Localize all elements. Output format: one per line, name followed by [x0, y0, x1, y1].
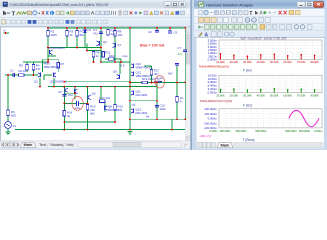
svg-text:1k: 1k — [157, 78, 161, 82]
resistor R1 — [19, 74, 24, 77]
analysis window icon — [199, 2, 204, 7]
chart 3 : transient sine wave — [200, 107, 324, 142]
svg-text:4k2: 4k2 — [90, 112, 95, 116]
svg-text:THD(HARM(V(OUT)))(%): THD(HARM(V(OUT)))(%) — [200, 99, 233, 103]
svg-text:0.000m: 0.000m — [208, 117, 218, 121]
wire node A horizontal — [48, 47, 67, 49]
svg-text:50.00K: 50.00K — [270, 60, 279, 64]
capacitor C2 — [155, 31, 159, 33]
resistor R7 — [76, 31, 79, 36]
svg-text:Models: Models — [51, 142, 64, 147]
current source inside circle — [76, 101, 78, 106]
wire horizontal y62 extension — [101, 61, 130, 63]
svg-text:THD(HARM(V(RL)))(%): THD(HARM(V(RL)))(%) — [199, 64, 229, 68]
resistor R4 — [32, 65, 35, 70]
svg-text:10.00K: 10.00K — [216, 93, 225, 97]
wire vertical R5 branch — [26, 62, 28, 72]
svg-text:40.00K: 40.00K — [257, 93, 266, 97]
wire vertical load branch — [176, 102, 178, 119]
resistor R7b — [57, 63, 60, 68]
wire vcc stub — [4, 32, 10, 34]
svg-text:22a: 22a — [75, 106, 80, 110]
svg-text:Q3: Q3 — [103, 40, 107, 44]
wire horizontal y81.8 — [64, 81, 130, 83]
resistor R17 — [150, 70, 153, 75]
svg-text:47u: 47u — [93, 32, 98, 36]
resistor R14 — [63, 111, 66, 116]
resistor R9 — [92, 52, 95, 57]
svg-text:100.000u: 100.000u — [219, 129, 231, 133]
wire vertical R4 branch — [33, 62, 35, 75]
junction dots cluster — [86, 50, 88, 52]
svg-text:8k2: 8k2 — [80, 33, 85, 37]
toolbar background — [0, 9, 191, 28]
wire mid feed — [23, 61, 48, 63]
resistor R11 — [102, 52, 105, 57]
wire lower row — [64, 121, 115, 123]
wire stub x170 top rail drop — [169, 28, 171, 31]
svg-text:300.000u: 300.000u — [235, 129, 247, 133]
svg-text:20.00K: 20.00K — [230, 60, 239, 64]
svg-text:Main: Main — [221, 143, 230, 148]
svg-text:200.000m: 200.000m — [205, 112, 218, 116]
transistor Q2 — [54, 73, 57, 78]
junction dot vcc — [5, 32, 7, 34]
resistor R2 — [47, 31, 50, 36]
source V2 — [175, 64, 179, 66]
resistor R12b — [109, 58, 114, 61]
wire horizontal y66 stub — [144, 65, 152, 67]
svg-text:C7: C7 — [178, 46, 182, 50]
svg-text:V1: V1 — [13, 124, 17, 128]
right title bar — [194, 0, 327, 9]
svg-text:100: 100 — [118, 33, 123, 37]
svg-text:In: In — [4, 29, 7, 33]
svg-text:30.00K: 30.00K — [243, 93, 252, 97]
wire collector row y59.7 — [43, 59, 59, 61]
svg-text:10k: 10k — [118, 108, 123, 112]
ground bottom mid — [128, 132, 133, 135]
wire bottom ground rail — [15, 129, 185, 131]
wire vertical x115 — [114, 87, 116, 122]
wire stub y93.3 — [64, 92, 75, 94]
svg-text:50.00K: 50.00K — [270, 93, 279, 97]
transistor Q7 — [113, 43, 116, 48]
app icon — [3, 2, 8, 7]
wire long mid rail — [48, 86, 157, 88]
svg-text:D1: D1 — [88, 28, 92, 32]
svg-text:1.000m: 1.000m — [314, 129, 324, 133]
svg-text:R7: R7 — [61, 62, 65, 66]
wire vertical x121 — [120, 59, 122, 62]
right bottom tab strip — [197, 142, 325, 149]
svg-text:T (Secs): T (Secs) — [243, 138, 255, 142]
svg-text:R1 1k: R1 1k — [19, 69, 27, 73]
wire top supply rail — [48, 27, 185, 29]
svg-text:Q6: Q6 — [113, 70, 117, 74]
wire output stage top — [130, 82, 185, 84]
wire between Q1 Q2 bases — [44, 74, 52, 76]
transistor Q12 — [131, 72, 134, 77]
junction dots extra — [76, 27, 78, 29]
schematic white canvas — [1, 27, 187, 141]
resistor R3 — [66, 31, 69, 36]
transistor Q9 — [88, 95, 91, 100]
wire vertical x42.5 — [42, 60, 44, 72]
junction dots — [47, 27, 49, 29]
svg-text:F (Hz): F (Hz) — [243, 69, 252, 73]
wire vertical x87 — [87, 87, 89, 130]
transistor Q3 — [97, 41, 100, 46]
transistor Q6 — [117, 74, 120, 79]
wire vertical x44 tail — [43, 75, 45, 80]
svg-text:500.000u: 500.000u — [255, 129, 267, 133]
svg-text:30.00K: 30.00K — [243, 60, 252, 64]
capacitor C6 — [168, 31, 172, 33]
svg-text:600: 600 — [11, 113, 16, 117]
resistor R6 — [7, 110, 10, 115]
chart 2 : THD harmonic spikes (green) — [200, 74, 323, 108]
chart 1 : THD harmonic spikes (red) — [199, 37, 323, 73]
wire feedback row — [130, 118, 185, 120]
window buttons — [297, 2, 323, 8]
wire vertical right edge — [184, 28, 186, 50]
capacitor C7 — [183, 50, 187, 52]
svg-text:MJL4281: MJL4281 — [136, 93, 148, 97]
transistor Q5b — [75, 89, 78, 94]
inductor L1 — [155, 81, 162, 82]
svg-text:4k99: 4k99 — [51, 33, 58, 37]
wire vertical R17 branch — [151, 66, 153, 83]
svg-text:C2: C2 — [148, 30, 152, 34]
wire through 22a ellipse — [64, 102, 76, 104]
svg-text:Main: Main — [24, 142, 33, 147]
svg-text:C9: C9 — [132, 103, 136, 107]
wire vertical V1 branch — [7, 75, 9, 110]
svg-text:Text: Text — [39, 142, 47, 147]
svg-text:Cex: Cex — [123, 54, 129, 58]
svg-text:40.00K: 40.00K — [257, 60, 266, 64]
svg-text:C:\MC10\DATA\MultiSim\Self-Api: C:\MC10\DATA\MultiSim\Self-ApicalBJT\Sel… — [10, 3, 109, 7]
wire horizontal Q3 row — [85, 47, 101, 49]
svg-text:R12: R12 — [109, 54, 115, 58]
svg-text:800.000u: 800.000u — [285, 129, 297, 133]
bottom tab strip — [0, 141, 191, 149]
svg-text:-200.000m: -200.000m — [204, 121, 218, 125]
transistor Q8 — [105, 106, 108, 111]
chart canvas — [197, 38, 325, 142]
svg-text:C5: C5 — [58, 90, 62, 94]
wire vertical x67 — [66, 28, 68, 48]
resistor RL — [176, 97, 179, 102]
wire vertical x157 — [156, 83, 158, 120]
resistor R12 — [100, 100, 105, 103]
resistor R13 — [114, 105, 117, 110]
svg-text:R5: R5 — [19, 64, 23, 68]
svg-text:Q1: Q1 — [34, 80, 38, 84]
svg-text:Q4 2N5401C: Q4 2N5401C — [48, 46, 65, 50]
window buttons minimize/restore/close — [164, 2, 186, 8]
wire vertical x64 — [63, 87, 65, 130]
svg-text:60.00K: 60.00K — [283, 93, 292, 97]
wire vertical C3 branch — [76, 28, 78, 48]
resistor R8 — [114, 31, 117, 36]
annotation ellipse around 22a — [72, 97, 83, 111]
right toolbars — [194, 9, 327, 38]
svg-text:100n: 100n — [160, 107, 167, 111]
svg-text:70.00K: 70.00K — [297, 60, 306, 64]
svg-text:Bias = 100 mA: Bias = 100 mA — [140, 43, 165, 47]
svg-text:0.000u: 0.000u — [209, 129, 218, 133]
junction dots 22a — [74, 92, 76, 94]
capacitor C1 — [13, 73, 15, 77]
wire vertical x172 lower — [171, 119, 173, 129]
wire stub x157 top — [156, 28, 158, 31]
svg-text:Q9: Q9 — [92, 92, 96, 96]
wire horizontal y56 — [48, 55, 56, 57]
transistor Q13 — [131, 109, 134, 114]
transistor Q10 — [131, 64, 134, 69]
svg-text:Harmonic Distortion Analysis: Harmonic Distortion Analysis — [206, 3, 253, 7]
junction dots y81.8 — [64, 81, 66, 83]
svg-text:47u: 47u — [178, 52, 183, 56]
svg-text:Info: Info — [67, 142, 74, 147]
svg-text:80.00K: 80.00K — [310, 60, 319, 64]
wire Q2 emitter — [53, 78, 55, 87]
resistor R10b — [107, 30, 110, 35]
wire horizontal x101 y62 — [101, 61, 120, 63]
wire input line — [5, 74, 38, 76]
svg-text:v(RL) (V): v(RL) (V) — [200, 134, 212, 138]
resistor R10 — [86, 105, 89, 110]
svg-text:C6: C6 — [174, 31, 178, 35]
svg-text:20.00K: 20.00K — [230, 93, 239, 97]
svg-text:900.000u: 900.000u — [299, 129, 311, 133]
resistor R16 — [142, 81, 147, 84]
svg-text:F (Hz): F (Hz) — [243, 104, 252, 108]
svg-text:4k7: 4k7 — [154, 72, 159, 76]
wire vertical x93.5 — [93, 51, 95, 63]
transistor Q4 — [50, 50, 53, 55]
svg-text:400.000m: 400.000m — [205, 107, 218, 111]
ground V1 — [6, 132, 11, 135]
transistor Q1 — [38, 73, 41, 78]
junction dots x75 — [74, 86, 76, 88]
wire vertical x58.3 — [57, 60, 59, 72]
wire vertical main x130 — [129, 28, 131, 130]
svg-text:C1: C1 — [10, 69, 14, 73]
annotation ellipse around V2 — [155, 76, 165, 88]
svg-text:0.6: 0.6 — [121, 64, 125, 68]
svg-text:220: 220 — [111, 32, 116, 36]
wire vertical x75 — [74, 87, 76, 99]
waveform v(RL) sine — [289, 110, 319, 126]
horizontal scrollbar — [78, 142, 181, 147]
wire vertical diode branch — [84, 28, 86, 48]
svg-text:4k7: 4k7 — [168, 72, 173, 76]
wire vertical x101 lower — [100, 87, 102, 99]
capacitor C10 — [155, 106, 159, 108]
svg-text:70.00K: 70.00K — [297, 93, 306, 97]
wire horizontal y50.5 — [87, 50, 101, 52]
left window title bar — [0, 0, 191, 9]
svg-text:R16 0R22: R16 0R22 — [142, 77, 155, 81]
capacitor C4 — [99, 32, 103, 34]
wire vertical right edge lower — [184, 83, 186, 120]
wire vertical x48 — [47, 28, 49, 62]
svg-text:80.00K: 80.00K — [310, 93, 319, 97]
source V1 — [5, 122, 12, 129]
transistor Q11 — [131, 91, 134, 96]
wire V2 source stub — [176, 65, 178, 82]
wire driver row — [130, 100, 157, 102]
wire vertical x120 — [119, 62, 121, 74]
wire vertical Q7 branch — [114, 28, 116, 62]
wire vertical x87 mid — [86, 43, 88, 50]
wire vertical C4 Q3 branch — [100, 28, 102, 62]
wire Q1 emitter — [39, 78, 41, 87]
svg-text:47k: 47k — [36, 67, 41, 71]
wire Q8 branch — [104, 102, 106, 112]
wire horizontal VAS row — [105, 58, 121, 60]
svg-text:i: i — [51, 11, 52, 16]
capacitor C5 — [62, 95, 66, 97]
transistor Q5 — [65, 88, 68, 92]
svg-text:60.00K: 60.00K — [283, 60, 292, 64]
svg-text:VBE=854mV: VBE=854mV — [44, 65, 61, 69]
diode D1 — [84, 30, 87, 33]
svg-text:T: T — [12, 12, 16, 18]
vertical scrollbar — [186, 27, 191, 141]
resistor R5 — [26, 65, 29, 70]
wire node row y47.5 extension — [67, 47, 85, 49]
svg-text:Q7: Q7 — [118, 43, 122, 47]
svg-text:T: T — [249, 11, 252, 17]
